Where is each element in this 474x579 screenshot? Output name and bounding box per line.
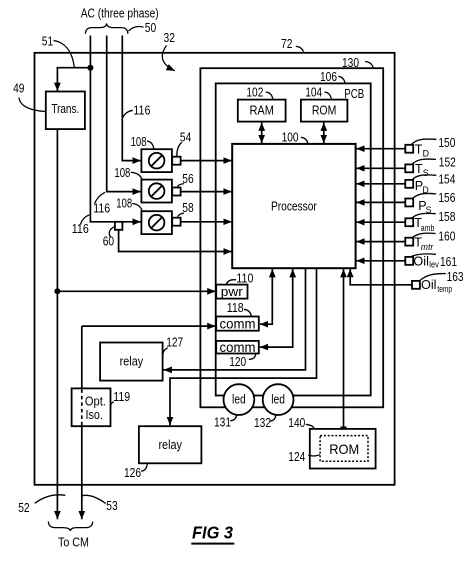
svg-text:PCB: PCB	[344, 87, 364, 101]
wire AC phase 3 into sensor 108a	[122, 36, 141, 161]
svg-text:comm: comm	[220, 339, 256, 355]
transformer 49	[46, 92, 85, 130]
current sensor 108c	[141, 211, 172, 234]
svg-text:49: 49	[13, 81, 24, 95]
terminal square Tamb 158	[405, 218, 413, 226]
svg-text:104: 104	[305, 86, 322, 100]
wire sensor Oil temp to processor bottom	[350, 269, 412, 285]
svg-text:Processor: Processor	[271, 198, 317, 213]
led 131	[224, 384, 255, 415]
terminal square Oil temp 163	[412, 281, 420, 289]
svg-text:Oil: Oil	[413, 254, 429, 268]
svg-text:53: 53	[106, 499, 117, 513]
wire tap 60 to processor	[119, 230, 232, 252]
comm block 118	[216, 317, 259, 331]
wire sensor 54 to processor	[181, 160, 232, 162]
svg-text:102: 102	[246, 86, 263, 100]
svg-text:ROM: ROM	[312, 103, 337, 118]
wire sensor 56 to processor	[181, 191, 232, 193]
svg-text:FIG 3: FIG 3	[192, 522, 233, 542]
wire transformer feed 51	[57, 68, 90, 91]
memory module box 140	[310, 429, 376, 469]
wire sensor TD to processor	[356, 148, 405, 150]
svg-text:152: 152	[439, 155, 456, 169]
svg-text:108: 108	[131, 135, 147, 149]
PCB box 106	[216, 83, 371, 395]
svg-text:50: 50	[145, 21, 156, 35]
svg-text:116: 116	[133, 103, 150, 117]
svg-text:51: 51	[42, 35, 53, 49]
wire sensor TS to processor	[356, 167, 405, 169]
ROM 104	[301, 100, 348, 122]
wire sensor 58 to processor	[181, 221, 232, 223]
svg-text:126: 126	[124, 466, 141, 480]
brace To CM	[48, 522, 92, 532]
svg-text:118: 118	[227, 301, 244, 315]
terminal square PD 154	[405, 180, 413, 188]
pwr block 110	[216, 285, 247, 299]
svg-text:RAM: RAM	[249, 103, 274, 118]
wire sensor Tmtr to processor	[356, 241, 405, 243]
svg-text:132: 132	[254, 416, 271, 430]
EEPROM 124 dashed	[320, 436, 368, 462]
current sensor 108b	[141, 180, 172, 203]
wire AC phase 1 into sensor 108c	[90, 36, 140, 222]
svg-text:108: 108	[114, 166, 130, 180]
wire pwr supply feed	[57, 290, 215, 292]
wire AC phase 2 into sensor 108b	[107, 36, 141, 192]
svg-text:lev: lev	[429, 259, 439, 269]
svg-text:mtr: mtr	[421, 242, 434, 252]
svg-text:163: 163	[447, 270, 464, 284]
svg-text:D: D	[423, 148, 429, 158]
terminal square 58	[172, 218, 180, 226]
wire comm 118 to processor bidirectional	[260, 269, 273, 324]
wire sensor Tamb to processor	[356, 221, 405, 223]
svg-text:124: 124	[288, 450, 305, 464]
svg-text:156: 156	[438, 191, 455, 205]
svg-text:110: 110	[236, 272, 253, 286]
terminal square Tmtr 160	[405, 238, 413, 246]
svg-text:161: 161	[440, 255, 457, 269]
terminal square TD 150	[405, 145, 413, 153]
svg-text:pwr: pwr	[221, 284, 244, 299]
svg-text:127: 127	[166, 336, 183, 350]
wire ROM to processor bidirectional	[323, 123, 325, 144]
wire processor to relay 127	[164, 268, 306, 370]
svg-text:T: T	[415, 162, 423, 176]
board box 130	[200, 68, 383, 407]
svg-text:140: 140	[288, 416, 305, 430]
svg-text:led: led	[271, 392, 285, 406]
node junction on phase 1	[87, 65, 93, 71]
wire sensor PD to processor	[356, 183, 405, 185]
svg-text:106: 106	[320, 70, 337, 84]
wire 53 comm line via opto isolator	[82, 325, 216, 327]
svg-text:Trans.: Trans.	[51, 102, 79, 116]
svg-text:relay: relay	[158, 438, 182, 452]
svg-text:100: 100	[282, 131, 299, 145]
wire sensor PS to processor	[356, 201, 405, 203]
terminal square 54	[172, 157, 180, 165]
svg-text:ROM: ROM	[329, 441, 359, 457]
enclosure box 72	[35, 53, 395, 485]
svg-text:108: 108	[116, 196, 132, 210]
processor 100	[232, 144, 355, 268]
svg-text:120: 120	[229, 355, 246, 369]
wire comm 120 to processor bidirectional	[260, 269, 293, 347]
svg-text:led: led	[232, 392, 246, 406]
svg-text:60: 60	[103, 235, 114, 249]
svg-text:comm: comm	[220, 316, 256, 332]
svg-text:temp: temp	[437, 284, 452, 294]
svg-text:58: 58	[182, 201, 193, 215]
svg-text:116: 116	[93, 201, 110, 215]
wire 52 transformer output to CM	[56, 129, 58, 519]
svg-text:52: 52	[18, 501, 29, 515]
svg-text:158: 158	[438, 210, 455, 224]
svg-text:Oil: Oil	[421, 278, 437, 292]
relay 127	[100, 343, 163, 381]
current sensor 108a	[141, 149, 172, 172]
svg-text:160: 160	[438, 230, 455, 244]
wire processor to EEPROM 124 bidirectional	[343, 269, 345, 435]
voltage tap square 60	[115, 222, 123, 230]
svg-text:131: 131	[214, 415, 231, 429]
opto isolator 119	[72, 388, 111, 426]
svg-text:154: 154	[438, 173, 455, 187]
wire processor to relay 126	[170, 268, 317, 425]
brace AC three phase	[85, 23, 128, 33]
svg-text:119: 119	[113, 390, 130, 404]
svg-text:amb: amb	[421, 223, 435, 233]
svg-text:T: T	[415, 143, 423, 157]
svg-text:relay: relay	[120, 355, 144, 369]
svg-text:72: 72	[281, 37, 292, 51]
svg-text:32: 32	[164, 31, 175, 45]
svg-text:150: 150	[438, 136, 455, 150]
svg-text:Iso.: Iso.	[85, 407, 103, 422]
svg-text:130: 130	[342, 56, 359, 70]
wire dashed segment through opto isolator	[81, 389, 83, 426]
wire sensor Oil lev to processor	[356, 260, 405, 262]
terminal square PS 156	[405, 199, 413, 207]
comm block 120	[216, 341, 259, 354]
svg-text:To CM: To CM	[58, 534, 89, 549]
terminal square TS 152	[405, 164, 413, 172]
relay 126	[139, 426, 202, 463]
terminal square 56	[172, 188, 180, 196]
wire RAM to processor bidirectional	[261, 123, 263, 144]
led 132	[263, 384, 294, 415]
terminal square Oil lev 161	[405, 257, 413, 265]
RAM 102	[238, 100, 286, 122]
svg-text:AC (three phase): AC (three phase)	[81, 7, 159, 21]
svg-text:S: S	[423, 168, 429, 178]
node junction pwr tap	[54, 288, 60, 294]
